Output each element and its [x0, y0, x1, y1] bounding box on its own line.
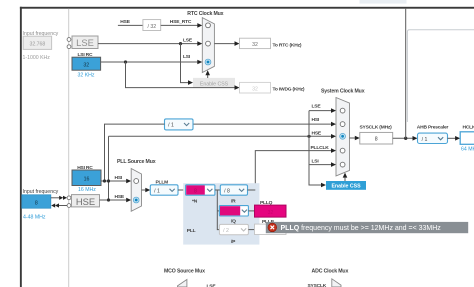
- wire HSI to pll mux: [101, 180, 127, 182]
- junction HSE css: [307, 135, 310, 138]
- junction LSE: [179, 42, 182, 45]
- wire pllm to N: [178, 189, 186, 191]
- svg-text:*N: *N: [192, 199, 198, 205]
- svg-text:HSI: HSI: [115, 175, 123, 181]
- svg-text:HSE: HSE: [115, 194, 125, 200]
- divider P disabled: [219, 224, 248, 234]
- svg-text:HSE: HSE: [312, 131, 322, 137]
- svg-text:64 MHz max: 64 MHz max: [461, 146, 474, 152]
- node circle HSE in: [67, 196, 71, 200]
- wire LSE to sys mux: [309, 110, 332, 112]
- svg-text:Enable CSS: Enable CSS: [200, 81, 229, 87]
- svg-text:HCLK (MHz): HCLK (MHz): [463, 124, 474, 130]
- wire pll mux out: [142, 189, 147, 191]
- wire ahb to hclk: [448, 137, 456, 139]
- arrow pair left: [51, 203, 55, 207]
- radio RTC LSE: [206, 41, 211, 46]
- svg-text:MCO Source Mux: MCO Source Mux: [164, 268, 205, 274]
- svg-text:8: 8: [375, 137, 378, 143]
- wire HSE to pll mux: [100, 199, 127, 201]
- svg-text:System Clock Mux: System Clock Mux: [321, 89, 365, 95]
- wire LSI to sys mux: [309, 164, 332, 166]
- svg-text:PLL Source Mux: PLL Source Mux: [117, 159, 156, 165]
- divider /32: [143, 20, 161, 31]
- svg-text:32: 32: [268, 210, 274, 216]
- junction LSI: [124, 60, 127, 63]
- svg-text:PLLQ frequency must be >= 12MH: PLLQ frequency must be >= 12MHz and =< 3…: [281, 225, 442, 232]
- wire Q out: [248, 210, 254, 212]
- arrow CSS up into RTC mux: [207, 75, 209, 78]
- radio sys LSI: [340, 162, 345, 167]
- radio pll HSI: [134, 179, 139, 184]
- svg-text:PLL: PLL: [187, 228, 196, 234]
- svg-text:ADC Clock Mux: ADC Clock Mux: [312, 269, 349, 275]
- svg-text:AHB Prescaler: AHB Prescaler: [417, 124, 449, 130]
- node circle HSE out: [67, 204, 71, 208]
- field PLLP: [255, 224, 287, 234]
- svg-text:LSE: LSE: [207, 283, 217, 287]
- svg-text:/R: /R: [231, 199, 236, 205]
- svg-text:/ 8: / 8: [224, 189, 230, 195]
- wire LSE to RTC mux: [98, 43, 198, 45]
- svg-text:LSE: LSE: [76, 37, 94, 48]
- wire HSE feed up: [108, 136, 110, 200]
- multiplier *N invalid: [186, 185, 215, 195]
- svg-text:32: 32: [252, 86, 258, 92]
- diagram top border: [20, 7, 474, 9]
- divider PLLM /1: [150, 185, 178, 195]
- junction sysclk: [404, 137, 407, 140]
- wire HSE to sys mux: [109, 135, 332, 137]
- divider Q invalid: [219, 206, 248, 216]
- svg-text:32 KHz: 32 KHz: [78, 73, 95, 79]
- field SYSCLK 8: [360, 132, 393, 144]
- button Enable CSS blue: [326, 181, 366, 190]
- svg-text:/ 1: / 1: [168, 123, 174, 129]
- svg-text:32.768: 32.768: [29, 42, 45, 48]
- mux ADC partial: [332, 279, 341, 287]
- divider AHB /1: [418, 133, 448, 143]
- divider R /8: [220, 185, 247, 195]
- peripheral container rect top-right: [407, 30, 474, 122]
- svg-text:Input frequency: Input frequency: [23, 189, 59, 195]
- wire LSE down to CSS: [181, 44, 189, 83]
- LSE input frequency field 32.768: [23, 36, 51, 49]
- zone boundary line: [68, 9, 70, 287]
- junction HSI b: [107, 179, 110, 182]
- svg-text:HSI: HSI: [312, 117, 320, 123]
- arrow CSS up into sys mux: [344, 178, 346, 181]
- svg-text:/ 2: / 2: [223, 228, 229, 234]
- svg-text:To RTC (KHz): To RTC (KHz): [273, 42, 302, 48]
- svg-text:/ 32: / 32: [147, 24, 156, 30]
- wire HSI feed up: [105, 124, 165, 181]
- svg-text:To IWDG (KHz): To IWDG (KHz): [273, 87, 305, 93]
- wire N branch down: [217, 190, 219, 230]
- svg-text:HSE: HSE: [76, 196, 95, 207]
- svg-text:16 MHz: 16 MHz: [78, 187, 96, 193]
- junction HSI a: [103, 179, 106, 182]
- tooltip bar: [266, 222, 468, 233]
- panel PLL: [183, 183, 259, 244]
- radio sys PLLCLK: [340, 148, 345, 153]
- field To IWDG 32: [240, 82, 271, 93]
- oscillator HSE: [72, 195, 100, 207]
- radio RTC LSI selected: [205, 59, 211, 65]
- wire css vertical: [309, 111, 322, 185]
- wire N to R: [215, 189, 220, 191]
- diagram left border: [20, 7, 22, 287]
- svg-text:LSE: LSE: [183, 37, 193, 43]
- wire HSE node to input freq: [59, 205, 68, 207]
- wire LSI to RTC mux: [101, 61, 198, 63]
- wire HSI div to sys mux: [193, 123, 332, 125]
- wire sys mux out: [350, 137, 356, 139]
- arrow pair right: [59, 196, 63, 200]
- svg-text:8: 8: [35, 200, 38, 206]
- HSE input frequency field 8: [22, 195, 51, 208]
- wire sysclk up: [405, 9, 407, 139]
- radio RTC HSE_RTC: [206, 23, 211, 28]
- svg-text:32: 32: [83, 63, 89, 69]
- wire R out: [248, 189, 256, 191]
- oscillator HSI RC 16: [72, 170, 101, 186]
- field PLLQ invalid: [255, 205, 287, 217]
- junction HSE: [107, 198, 110, 201]
- radio sys HSE selected: [340, 133, 346, 139]
- faint element above top border: [360, 0, 407, 4]
- svg-text:HSE: HSE: [120, 19, 130, 25]
- tooltip error icon: [268, 223, 277, 232]
- wire RTC mux out: [214, 43, 235, 45]
- field To RTC 32: [240, 38, 271, 48]
- radio pll HSE selected: [133, 197, 139, 203]
- wire PLLCLK to sys mux: [255, 151, 331, 191]
- radio sys HSI: [340, 122, 345, 127]
- mux PLL source: [131, 169, 141, 212]
- divider HSI /1: [165, 119, 194, 130]
- radio sys LSE: [340, 108, 345, 113]
- wire HSE_RTC to RTC mux: [161, 24, 198, 26]
- svg-text:1-1000 KHz: 1-1000 KHz: [23, 55, 51, 61]
- wire input freq to HSE node: [51, 197, 60, 199]
- svg-text:32: 32: [252, 42, 258, 48]
- svg-text:LSI: LSI: [312, 159, 320, 165]
- wire LSI down to IWDG: [126, 62, 236, 88]
- svg-text:RTC Clock Mux: RTC Clock Mux: [187, 11, 223, 17]
- svg-text:SYSCLK (MHz): SYSCLK (MHz): [360, 124, 393, 130]
- svg-text:4-48 MHz: 4-48 MHz: [23, 214, 46, 220]
- svg-text:/ 1: / 1: [154, 189, 160, 195]
- node circle LSE in: [67, 38, 71, 42]
- svg-text:LSE: LSE: [312, 103, 322, 109]
- mux RTC: [202, 18, 214, 73]
- mux MCO partial: [178, 280, 187, 287]
- oscillator LSI RC 32: [72, 57, 101, 70]
- svg-text:/ 1: / 1: [422, 137, 428, 143]
- svg-text:Enable CSS: Enable CSS: [331, 184, 361, 190]
- oscillator LSE: [72, 36, 98, 49]
- field HCLK: [460, 132, 474, 145]
- svg-text:8: 8: [194, 189, 197, 195]
- node circle LSE out: [67, 45, 71, 49]
- mux System: [336, 98, 350, 176]
- svg-text:16: 16: [84, 177, 90, 183]
- svg-text:PLLCLK: PLLCLK: [311, 145, 330, 151]
- svg-text:HSE_RTC: HSE_RTC: [170, 19, 192, 25]
- svg-text:/Q: /Q: [231, 219, 236, 225]
- svg-text:LSI: LSI: [183, 54, 191, 60]
- wire HSE to div32: [118, 24, 143, 26]
- button Enable CSS gray: [193, 78, 235, 88]
- wire P out: [248, 229, 254, 231]
- svg-text:SYSCLK: SYSCLK: [308, 283, 327, 287]
- wire sysclk to ahb: [393, 137, 413, 139]
